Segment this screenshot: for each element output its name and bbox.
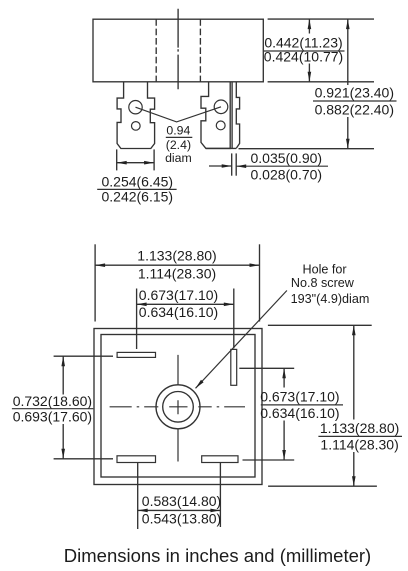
hidden dashed line left bbox=[155, 19, 157, 82]
arrow up 0.921 bbox=[346, 19, 350, 29]
dim line 0.583 bbox=[138, 509, 221, 511]
hidden dashed line right bbox=[199, 19, 201, 82]
outer square bbox=[94, 329, 262, 485]
svg-text:1.114(28.30): 1.114(28.30) bbox=[320, 437, 398, 453]
fraction bar tall bbox=[318, 435, 402, 437]
svg-text:0.732(18.60): 0.732(18.60) bbox=[13, 393, 92, 409]
svg-text:0.543(13.80): 0.543(13.80) bbox=[142, 511, 221, 527]
dim line 0.442 vertical bbox=[308, 19, 310, 33]
bottom dim 0.583: extension verticals bbox=[137, 463, 139, 530]
extension line: body top right bbox=[268, 18, 374, 20]
extension lines 0.254 under left pin bbox=[116, 149, 118, 170]
center hole inner bbox=[163, 392, 194, 423]
dim line 1.133 top bbox=[95, 264, 259, 266]
extension line: pin bottom right bbox=[239, 148, 375, 150]
svg-text:0.673(17.10): 0.673(17.10) bbox=[139, 287, 218, 303]
right pin face outline bbox=[201, 82, 230, 149]
dim line 0.254 with arrows bbox=[117, 162, 154, 164]
inner square bbox=[101, 335, 255, 478]
leader to center hole bbox=[196, 291, 287, 389]
right pin strip outer edge with bumps bbox=[236, 82, 239, 148]
right pin bottom edge to strip bbox=[206, 147, 236, 149]
svg-text:1.133(28.80): 1.133(28.80) bbox=[320, 420, 399, 436]
dim line tall vertical bbox=[353, 325, 355, 419]
arrow down 0.921 bbox=[346, 139, 350, 149]
right tall dim 1.133: extension lines bbox=[268, 324, 372, 326]
dim line 0.921 vertical bbox=[347, 19, 349, 85]
top dim 0.673: extension verticals bbox=[136, 289, 138, 350]
fraction bar 0.442 bbox=[264, 50, 345, 52]
right dim 0.673: extension lines bbox=[239, 367, 294, 369]
center hole outer bbox=[156, 385, 200, 429]
leader V from pin holes to 0.94 note bbox=[136, 107, 222, 122]
fraction bar right 0.673 bbox=[261, 404, 343, 406]
dim line right 0.673 vertical bbox=[283, 368, 285, 387]
left pin outline bbox=[117, 82, 155, 149]
fraction bar 0.254 bbox=[97, 188, 176, 190]
svg-text:0.424(10.77): 0.424(10.77) bbox=[264, 48, 343, 64]
svg-text:0.921(23.40): 0.921(23.40) bbox=[315, 85, 394, 101]
svg-text:0.634(16.10): 0.634(16.10) bbox=[139, 304, 218, 320]
svg-text:0.693(17.60): 0.693(17.60) bbox=[13, 409, 92, 425]
svg-text:0.673(17.10): 0.673(17.10) bbox=[260, 389, 339, 405]
svg-text:Dimensions in inches and (mill: Dimensions in inches and (millimeter) bbox=[64, 545, 371, 566]
extension line: body bottom right bbox=[268, 81, 374, 83]
left pin big hole bbox=[129, 101, 142, 114]
svg-text:0.035(0.90): 0.035(0.90) bbox=[250, 150, 322, 166]
fraction bar / arrow line 0.035 bbox=[236, 165, 328, 167]
left pin small hole bbox=[132, 122, 141, 131]
svg-text:0.242(6.15): 0.242(6.15) bbox=[101, 189, 173, 205]
fraction bar 0.732 bbox=[12, 408, 93, 410]
slot bottom-left bbox=[117, 456, 156, 463]
arrow down 0.442 bbox=[308, 72, 312, 82]
svg-text:No.8 screw: No.8 screw bbox=[291, 276, 355, 290]
slot bottom-right bbox=[202, 456, 238, 463]
svg-text:Hole for: Hole for bbox=[303, 262, 347, 276]
fraction bar 0.94/(2.4) bbox=[166, 136, 193, 138]
svg-text:1.133(28.80): 1.133(28.80) bbox=[137, 247, 216, 263]
svg-text:diam: diam bbox=[165, 151, 192, 165]
right pin small hole bbox=[216, 121, 225, 130]
crosshair horizontal bbox=[110, 406, 245, 408]
svg-text:0.028(0.70): 0.028(0.70) bbox=[250, 166, 322, 182]
arrow toward strip from left bbox=[209, 165, 232, 167]
extension lines 0.035 under right pin strip bbox=[231, 153, 233, 175]
dim line 0.732 vertical bbox=[62, 356, 64, 394]
right pin big hole bbox=[214, 100, 228, 114]
slot right vertical bbox=[231, 349, 237, 385]
crosshair vertical bbox=[177, 355, 179, 462]
slot top-left bbox=[117, 352, 155, 357]
svg-text:0.634(16.10): 0.634(16.10) bbox=[260, 405, 339, 421]
right pin strip inner line bbox=[231, 82, 233, 149]
svg-text:0.254(6.45): 0.254(6.45) bbox=[101, 173, 173, 189]
fraction bar 0.921 bbox=[313, 100, 397, 102]
svg-text:0.583(14.80): 0.583(14.80) bbox=[142, 493, 221, 509]
svg-text:1.114(28.30): 1.114(28.30) bbox=[138, 266, 216, 282]
left dim 0.732: extension lines bbox=[54, 355, 113, 357]
svg-text:193"(4.9)diam: 193"(4.9)diam bbox=[291, 292, 370, 306]
svg-text:0.882(22.40): 0.882(22.40) bbox=[315, 102, 394, 118]
arrow up 0.442 bbox=[308, 19, 312, 29]
vertical centerline bbox=[177, 9, 179, 89]
dim line 0.673 top bbox=[137, 303, 234, 305]
body rectangle bbox=[93, 19, 263, 82]
svg-text:(2.4): (2.4) bbox=[166, 138, 191, 152]
top dim 1.133: extension verticals bbox=[94, 244, 96, 321]
svg-text:0.94: 0.94 bbox=[166, 124, 190, 138]
